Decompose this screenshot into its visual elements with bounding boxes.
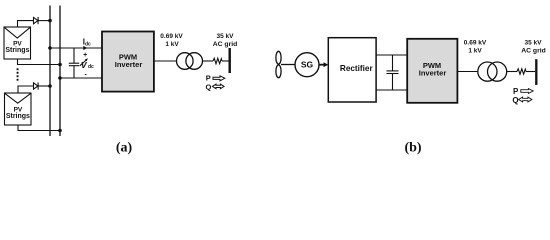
top DC wire bus1 to inverter [50,47,102,49]
junction dot bus2/bottom wire [58,76,62,80]
PV string 1 box [4,27,31,59]
Vdc arrow [80,60,86,66]
PWM inverter label (a) [115,53,143,70]
PWM inverter label (b) [419,61,447,78]
wire PV2 top to diode D2 [18,86,33,93]
svg-text:35 kV: 35 kV [525,39,543,46]
svg-text:dc: dc [88,64,94,70]
label 35 kV AC grid (b) [521,39,546,54]
label 35 kV AC grid (a) [213,33,238,48]
output wire inverter to transformer (a) [154,60,177,62]
grid impedance zigzag (a) [213,58,222,63]
junction dot bus2/PV1 bottom [58,63,62,67]
label 0.69 kV / 1 kV (a) [160,33,183,48]
output wire inverter to transformer (b) [457,71,478,73]
label Idc [83,38,91,48]
capacitor C (b) [387,55,399,90]
AC grid bus bar (a) [228,48,230,73]
PWM inverter box (a) [102,32,154,92]
bottom DC wire rectifier to inverter (b) [376,89,407,91]
svg-text:1 kV: 1 kV [165,41,179,48]
svg-text:Strings: Strings [5,47,29,54]
wire PV1 top to diode D1 [18,21,34,27]
turbine shaft [281,64,295,66]
svg-text:Rectifier: Rectifier [340,64,374,73]
svg-text:P: P [513,87,519,96]
DC bus 1 (positive rail) [49,6,51,137]
PV string 2 label [6,106,30,119]
bottom DC wire bus2 to inverter [60,77,102,79]
wire zigzag to grid bar (b) [526,71,535,73]
wire D2 to bus1 [38,85,50,87]
svg-text:dc: dc [85,41,91,47]
svg-text:0.69 kV: 0.69 kV [464,39,487,46]
wire transformer to impedance (b) [507,71,517,73]
wire zigzag to grid bar (a) [222,60,229,62]
svg-text:Inverter: Inverter [115,60,143,69]
generator SG [295,53,319,77]
PV string 2 box [5,93,32,125]
svg-text:Strings: Strings [6,113,30,120]
junction dot bus1/D2 [48,84,52,88]
diode D1 [34,17,39,24]
grid impedance zigzag (b) [517,69,526,74]
svg-text:1 kV: 1 kV [468,47,482,54]
DC bus 2 (negative rail) [59,6,61,137]
arrow Idc on wire [83,46,87,50]
PV string 1 label [5,40,29,53]
svg-text:0.69 kV: 0.69 kV [160,33,183,40]
svg-text:AC grid: AC grid [213,41,238,48]
svg-text:AC grid: AC grid [521,47,546,54]
svg-text:Inverter: Inverter [419,69,447,78]
label + Vdc - with arrow [81,52,94,79]
junction dot bus1/D1 [48,19,52,23]
svg-text:35 kV: 35 kV [217,33,235,40]
rectifier box [328,38,376,102]
transformer T (b) [478,62,507,81]
transformer T (a) [177,53,203,70]
AC grid bus bar (b) [535,59,537,85]
arrow SG to rectifier [319,64,325,66]
capacitor C (a) [69,48,79,78]
wind turbine blades [276,51,281,77]
diode D2 [34,82,39,89]
svg-text:SG: SG [301,60,314,70]
wire D1 to bus1 [38,20,50,22]
ellipsis more strings [17,68,19,80]
svg-text:Q: Q [206,82,212,91]
label 0.69 kV / 1 kV (b) [464,39,487,54]
PWM inverter box (b) [407,39,457,103]
svg-text:(a): (a) [116,140,133,155]
svg-text:Q: Q [512,96,518,105]
svg-text:(b): (b) [404,140,421,155]
wire transformer to impedance (a) [203,60,214,62]
wire PV1 bottom to bus2 [18,59,61,65]
svg-text:+: + [83,52,87,59]
wire PV2 bottom to bus2 [18,125,60,131]
top DC wire rectifier to inverter (b) [376,54,407,56]
junction dot bus2/PV2 bottom [58,129,62,133]
junction dot bus1/top wire [48,46,52,50]
